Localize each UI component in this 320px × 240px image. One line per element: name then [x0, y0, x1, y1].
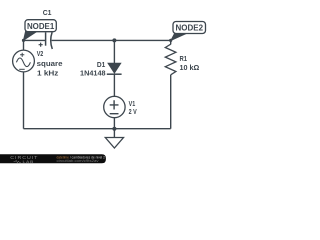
svg-text:V2: V2 — [37, 51, 44, 58]
svg-text:V1: V1 — [129, 101, 136, 108]
watermark CircuitLab bar — [0, 154, 106, 164]
junction dot bottom middle — [112, 127, 116, 131]
svg-text:1N4148: 1N4148 — [80, 70, 106, 77]
svg-text:square: square — [37, 61, 63, 68]
wire: middle branch mid (D1 cathode to V1 top) — [113, 74, 115, 96]
wire: left branch upper (node1 corner down to V2 top) — [23, 40, 25, 50]
svg-text:NODE2: NODE2 — [176, 24, 204, 33]
svg-text:C1: C1 — [43, 10, 52, 17]
wire: right branch lower (R1 bottom to bottom rail) — [170, 75, 172, 129]
resistor R1 — [165, 44, 176, 75]
wire: middle branch lower (V1 bottom to bottom rail) — [113, 118, 115, 129]
voltage source V2 (sine, square 1 kHz) — [13, 50, 35, 72]
svg-text:LAB: LAB — [23, 160, 35, 164]
capacitor C1 (polarized) — [39, 32, 53, 49]
wire: left branch lower (V2 bottom to bottom rail) — [23, 72, 25, 129]
node dot right corner — [169, 39, 172, 42]
svg-text:NODE1: NODE1 — [27, 22, 55, 31]
voltage source V1 (battery 2 V) — [104, 96, 125, 117]
wire: top rail right segment (C1 right plate to node2 corner) — [52, 39, 171, 41]
svg-text:10 kΩ: 10 kΩ — [180, 65, 200, 72]
ground — [105, 129, 123, 148]
node A flag NODE1 — [23, 20, 56, 41]
svg-text:D1: D1 — [97, 62, 105, 69]
svg-text:R1: R1 — [180, 56, 188, 63]
diode D1 — [107, 63, 122, 74]
svg-text:1 kHz: 1 kHz — [37, 70, 59, 77]
node dot left corner — [22, 39, 25, 42]
wire: middle branch upper (top rail junction to D1 anode) — [113, 40, 115, 63]
node B flag NODE2 — [171, 22, 206, 41]
svg-text:circuitlab.com/c9ts2av: circuitlab.com/c9ts2av — [57, 159, 100, 163]
wire: right branch upper (node2 corner to R1 top) — [170, 40, 172, 44]
svg-text:2 V: 2 V — [129, 109, 137, 116]
wire: top rail left segment (node1 corner to C1 left plate) — [24, 39, 46, 41]
junction dot top middle — [112, 38, 116, 42]
wire: bottom rail — [24, 128, 171, 130]
